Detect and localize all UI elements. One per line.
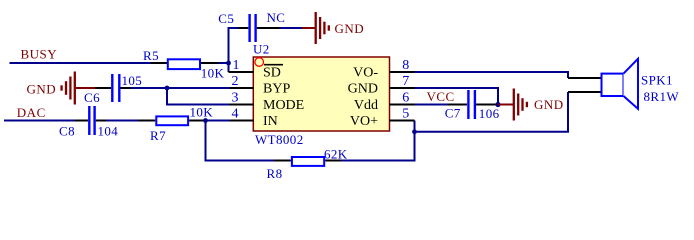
svg-text:105: 105 bbox=[122, 73, 143, 88]
svg-text:IN: IN bbox=[263, 114, 278, 129]
svg-text:R5: R5 bbox=[143, 48, 159, 63]
svg-text:SD: SD bbox=[263, 66, 281, 81]
resistor R5 bbox=[143, 48, 224, 81]
svg-text:C7: C7 bbox=[445, 106, 461, 121]
svg-text:62K: 62K bbox=[324, 146, 348, 161]
resistor R7 bbox=[138, 105, 213, 144]
svg-text:2: 2 bbox=[232, 74, 239, 89]
wire down to R8 row bbox=[206, 121, 275, 161]
svg-text:R8: R8 bbox=[267, 166, 283, 181]
junction C7/pin7/GND bbox=[495, 102, 500, 107]
junction pin2/pin3 bbox=[165, 86, 170, 91]
svg-text:7: 7 bbox=[402, 74, 409, 89]
pin 4 IN bbox=[230, 107, 278, 129]
capacitor C7 bbox=[445, 90, 500, 121]
IC U2 audio amplifier WT8002 bbox=[253, 42, 390, 148]
wire BUSY net horizontal bbox=[10, 62, 229, 64]
ground (right, at C7) bbox=[498, 89, 564, 121]
svg-text:GND: GND bbox=[348, 82, 378, 97]
svg-text:GND: GND bbox=[27, 81, 57, 96]
wire pin8 to speaker top bbox=[415, 72, 568, 78]
wire pin6 to C7 bbox=[415, 104, 448, 106]
pin 7 GND bbox=[348, 74, 415, 96]
junction pin4/R8 bbox=[203, 118, 208, 123]
pin 2 BYP bbox=[230, 74, 290, 96]
svg-text:NC: NC bbox=[267, 10, 286, 25]
wire speaker bottom stub bbox=[568, 91, 602, 93]
ground (left, at C6) bbox=[27, 72, 96, 105]
wire to C5 bbox=[229, 28, 239, 63]
junction pin1/C5/BUSY bbox=[226, 61, 231, 66]
svg-text:C5: C5 bbox=[218, 11, 234, 26]
capacitor C6 bbox=[84, 73, 142, 105]
svg-text:VO-: VO- bbox=[353, 66, 378, 81]
wire VO+ node to speaker bottom bbox=[415, 92, 569, 132]
svg-text:R7: R7 bbox=[150, 128, 166, 143]
wire junction to pin4 bbox=[206, 120, 231, 122]
svg-text:8: 8 bbox=[402, 58, 409, 73]
svg-text:1: 1 bbox=[233, 58, 240, 73]
pin 3 MODE bbox=[230, 91, 305, 113]
svg-text:GND: GND bbox=[335, 21, 365, 36]
svg-text:GND: GND bbox=[534, 97, 564, 112]
capacitor C5 bbox=[218, 11, 280, 42]
pin 1 SD bbox=[229, 58, 281, 80]
svg-text:3: 3 bbox=[232, 91, 239, 106]
svg-text:10K: 10K bbox=[190, 105, 214, 120]
wire C8 to R7 bbox=[106, 120, 138, 122]
svg-text:WT8002: WT8002 bbox=[255, 132, 304, 147]
svg-text:6: 6 bbox=[402, 91, 409, 106]
svg-text:C6: C6 bbox=[84, 90, 100, 105]
svg-text:DAC: DAC bbox=[17, 105, 46, 120]
pin 6 Vdd bbox=[354, 91, 415, 113]
wire C6 to pin2 bbox=[131, 87, 231, 89]
wire C5 to GND bbox=[280, 27, 302, 29]
junction VO+/speaker bbox=[412, 129, 417, 134]
pin 5 VO+ bbox=[350, 107, 415, 129]
svg-text:C8: C8 bbox=[59, 124, 75, 139]
wire DAC net bbox=[4, 120, 75, 122]
ground (top, at C5) bbox=[302, 12, 364, 44]
svg-text:10K: 10K bbox=[201, 66, 225, 81]
svg-text:BYP: BYP bbox=[263, 82, 290, 97]
svg-text:8R1W: 8R1W bbox=[644, 89, 680, 104]
svg-text:BUSY: BUSY bbox=[21, 47, 58, 62]
svg-text:106: 106 bbox=[479, 106, 500, 121]
svg-text:MODE: MODE bbox=[263, 98, 304, 113]
wire speaker top stub bbox=[568, 77, 602, 79]
svg-text:5: 5 bbox=[402, 107, 409, 122]
speaker SPK1 bbox=[602, 59, 680, 109]
pin 8 VO- bbox=[353, 58, 415, 80]
svg-text:SPK1: SPK1 bbox=[641, 73, 673, 88]
svg-text:Vdd: Vdd bbox=[354, 98, 378, 113]
svg-text:VCC: VCC bbox=[427, 89, 455, 104]
wire pin7 down to C7/GND node bbox=[415, 88, 499, 105]
resistor R8 bbox=[267, 146, 348, 181]
svg-text:4: 4 bbox=[232, 107, 239, 122]
wire junction down to pin3 row bbox=[167, 88, 230, 105]
wire R8 to VO+ node bbox=[341, 121, 415, 161]
capacitor C8 bbox=[59, 106, 118, 139]
svg-text:104: 104 bbox=[98, 124, 119, 139]
svg-text:VO+: VO+ bbox=[350, 114, 378, 129]
svg-text:U2: U2 bbox=[253, 42, 270, 57]
